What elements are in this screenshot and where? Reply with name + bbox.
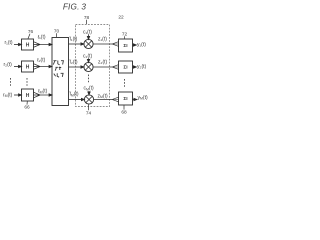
svg-text:zM(t): zM(t) — [98, 93, 108, 99]
svg-text:ℓ₁(t): ℓ₁(t) — [38, 35, 46, 41]
svg-text:ΣI: ΣI — [123, 65, 128, 71]
svg-text:z₁(t): z₁(t) — [98, 37, 107, 43]
svg-text:z₂(t): z₂(t) — [98, 60, 107, 66]
svg-text:ĩ₁(t): ĩ₁(t) — [69, 37, 78, 43]
svg-text:FIG.3: FIG.3 — [63, 2, 87, 11]
svg-text:66: 66 — [24, 105, 30, 111]
svg-text:H: H — [26, 93, 30, 99]
svg-text:r₁(t): r₁(t) — [5, 40, 13, 46]
svg-text:H: H — [26, 42, 30, 48]
svg-text:ΣI: ΣI — [123, 43, 128, 49]
svg-text:22: 22 — [118, 15, 124, 21]
svg-text:y₂(t): y₂(t) — [137, 64, 146, 70]
svg-text:rM(t): rM(t) — [3, 92, 13, 98]
svg-text:68: 68 — [121, 110, 127, 116]
svg-text:r₂(t): r₂(t) — [4, 62, 13, 68]
svg-text:H: H — [26, 64, 30, 70]
svg-text:cM(t): cM(t) — [84, 86, 94, 92]
svg-text:c₁(t): c₁(t) — [83, 30, 92, 36]
svg-text:ΣI: ΣI — [123, 96, 128, 102]
svg-text:74: 74 — [86, 111, 92, 117]
svg-text:c₂(t): c₂(t) — [83, 54, 92, 60]
svg-text:76: 76 — [28, 29, 34, 35]
svg-text:y₁(t): y₁(t) — [137, 42, 146, 48]
svg-text:ĩM(t): ĩM(t) — [69, 92, 79, 98]
svg-text:ℓM(t): ℓM(t) — [38, 89, 48, 95]
svg-text:yM(t): yM(t) — [138, 95, 148, 101]
svg-text:ℓ₂(t): ℓ₂(t) — [37, 58, 46, 64]
svg-text:ĩ₂(t): ĩ₂(t) — [69, 60, 78, 66]
